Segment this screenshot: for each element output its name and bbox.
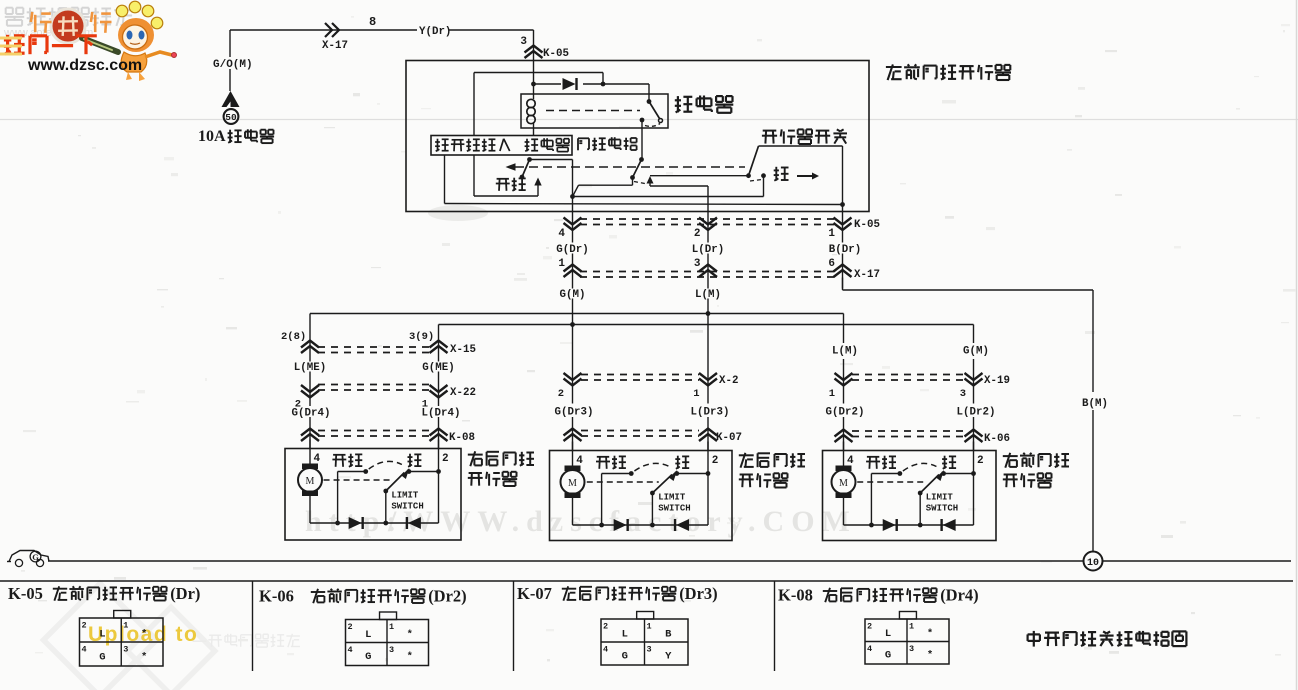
connector X-22 dashes [318, 385, 430, 391]
label G(M) branch3 [963, 346, 989, 358]
actuator K-07 (left rear) pin 4 label [576, 455, 583, 467]
label X-17 row [854, 269, 880, 281]
svg-text:K-08: K-08 [778, 586, 813, 605]
label K-08 row [449, 432, 475, 444]
svg-text:G: G [32, 552, 39, 562]
logo yellow streaks [0, 38, 22, 54]
svg-text:X-22: X-22 [450, 387, 476, 399]
X-19 pin 3 [960, 388, 966, 400]
svg-text:10: 10 [1087, 558, 1099, 569]
svg-text:3: 3 [694, 258, 701, 270]
svg-text:4: 4 [603, 645, 608, 655]
svg-text:1: 1 [123, 621, 128, 631]
svg-text:Y: Y [665, 651, 672, 663]
svg-text:M: M [306, 476, 315, 487]
svg-text:1: 1 [647, 622, 652, 632]
label L(Dr2) [957, 407, 996, 419]
svg-text:K-08: K-08 [449, 432, 475, 444]
svg-text:*: * [407, 651, 413, 663]
svg-text:SWITCH: SWITCH [658, 504, 690, 514]
svg-text:6: 6 [828, 258, 835, 270]
svg-text:G: G [622, 651, 628, 663]
svg-text:1: 1 [909, 622, 914, 632]
car ground icon [7, 551, 49, 567]
svg-text:K-06: K-06 [984, 433, 1010, 445]
actuator K-07 (left rear) wire motor to bottom [572, 498, 574, 525]
actuator K-08 (right rear) label 开锁 [332, 454, 362, 467]
svg-text:*: * [927, 650, 933, 662]
actuator K-08 (right rear) wire pin4 to motor [309, 440, 311, 464]
actuator switch lock contact [761, 173, 766, 196]
wire branch2 right (L(Dr3)) [707, 314, 709, 451]
actuator K-06 (right front) pin 4 label [847, 455, 854, 467]
svg-text:4: 4 [558, 228, 565, 240]
svg-text:1: 1 [558, 258, 565, 270]
connector X-17 chevrons [564, 265, 852, 278]
label G(Dr3) [555, 407, 594, 419]
connector K-05 row dashes [580, 219, 835, 225]
title K-07 左后门锁执行器(Dr3) [517, 584, 718, 603]
wire down to K-05 pin3 [533, 30, 535, 61]
svg-text:1: 1 [389, 622, 394, 632]
wire relay contact down [641, 120, 643, 160]
actuator K-06 (right front) label LIMIT SWITCH [926, 493, 958, 514]
wire unlock common to G(Dr) [530, 160, 573, 197]
wire branch1 left (L(ME)/G(Dr4)) [309, 314, 311, 449]
junction L(M) feeder [706, 311, 711, 316]
svg-text:www.dzsc.com: www.dzsc.com [27, 57, 142, 74]
label 右前门锁执行器 (box3) [1003, 453, 1069, 488]
connector K-06 dashes [852, 431, 965, 437]
label 开锁 (big box) [496, 178, 526, 191]
actuator K-08 (right rear) mechanical dashes [324, 479, 392, 481]
svg-text:G(Dr2): G(Dr2) [826, 407, 865, 419]
actuator K-06 (right front) wire motor to bottom [843, 498, 845, 525]
wire contactA left [573, 178, 633, 197]
label 左前门锁执行器 [886, 64, 1011, 80]
label X-2 [719, 375, 738, 387]
label pin 3 [520, 36, 527, 48]
actuator K-08 (right rear) box [285, 449, 461, 541]
label K-05 (top) [543, 48, 569, 60]
svg-text:3: 3 [389, 645, 394, 655]
svg-text:LIMIT: LIMIT [926, 493, 954, 503]
actuator switch arm [746, 146, 758, 178]
title K-06 右前门锁执行器(Dr2) [259, 587, 467, 606]
svg-text:2: 2 [558, 388, 564, 400]
svg-text:G: G [885, 650, 891, 662]
actuator K-08 (right rear) pin 2 label [442, 453, 449, 465]
wire branch1 right (G(ME)/L(Dr4)) [438, 325, 440, 449]
label 锁 (big box) [774, 167, 789, 181]
label G/O(M) [213, 59, 253, 71]
X-19 pin 1 [829, 388, 835, 400]
actuator K-07 (left rear) wire pin4 to motor [572, 442, 574, 466]
actuator K-07 (left rear) diode D1 [614, 519, 628, 531]
svg-text:B(M): B(M) [1082, 398, 1108, 410]
svg-text:K-06: K-06 [259, 587, 294, 606]
label 左后门锁执行器 (box2) [739, 453, 805, 488]
label 10A 继电器 [198, 128, 274, 145]
actuator K-06 (right front) lock contact junction [941, 471, 976, 476]
svg-text:L(Dr3): L(Dr3) [691, 407, 730, 419]
wire battery feed horizontal [230, 29, 534, 31]
svg-text:2: 2 [603, 622, 608, 632]
wire B(M) vertical [1092, 290, 1094, 552]
lock direction arrow [797, 173, 819, 180]
actuator K-07 (left rear) switch arm with arrow [650, 470, 677, 495]
actuator K-08 (right rear) unlock contact wire [338, 469, 369, 523]
svg-text:G(ME): G(ME) [422, 362, 454, 374]
actuator K-07 (left rear) label 开锁 [596, 456, 626, 469]
actuator K-07 (left rear) bottom wire [573, 523, 709, 528]
svg-text:LIMIT: LIMIT [391, 491, 419, 501]
svg-text:3: 3 [520, 36, 527, 48]
ground terminal circle 10 [1084, 552, 1103, 571]
X-22 pin 2 [295, 399, 301, 411]
actuator switch top wire [759, 145, 843, 147]
svg-text:L: L [622, 629, 628, 641]
feeder wire G net [439, 324, 974, 326]
actuator K-08 (right rear) diode D2 [407, 517, 421, 529]
watermark diamonds bottom-left [43, 583, 214, 690]
svg-text:3: 3 [909, 644, 914, 654]
connector K-05 chevrons [564, 218, 852, 231]
svg-text:3: 3 [123, 645, 128, 655]
logo mascot [116, 1, 176, 81]
actuator K-06 (right front) motor M [832, 466, 856, 499]
actuator K-07 (left rear) unlock contact wire [602, 471, 634, 525]
label 右后门锁执行器 (box1) [468, 451, 534, 486]
actuator K-07 (left rear) wire pin2 column [707, 442, 709, 526]
X-15 pin 2(8) [281, 331, 306, 343]
watermark gray text after upload [193, 634, 300, 647]
K-05 pin 1 [828, 228, 835, 240]
label X-17 (top) [322, 40, 348, 52]
svg-text:SWITCH: SWITCH [391, 502, 423, 512]
svg-text:X-2: X-2 [719, 375, 738, 387]
svg-text:3: 3 [960, 388, 966, 400]
connector pinout K-05 [80, 611, 164, 667]
label L(M) [695, 289, 721, 301]
middle switch throw dashes [634, 182, 645, 184]
dashed control line with left arrow [506, 163, 746, 171]
svg-text:G: G [365, 651, 371, 663]
actuator K-07 (left rear) mechanical dashes [587, 481, 659, 483]
svg-text:10A: 10A [198, 128, 226, 145]
wire to relay common [603, 84, 649, 101]
svg-text:3(9): 3(9) [409, 331, 434, 343]
watermark http url across actuators [305, 505, 857, 538]
svg-text:G: G [99, 652, 105, 664]
svg-text:50: 50 [225, 112, 237, 123]
ground rail [48, 560, 1291, 562]
wire contactB to L(Dr) [650, 186, 708, 212]
actuator K-06 (right front) wire pin4 to motor [843, 442, 845, 466]
actuator K-08 (right rear) motor M [298, 464, 322, 497]
svg-text:2: 2 [977, 455, 984, 467]
label K-05 row [854, 219, 880, 231]
svg-text:*: * [927, 628, 933, 640]
connector pinout K-07 [601, 612, 688, 666]
label 锁开锁输入 [435, 139, 510, 152]
table separator line [0, 580, 1293, 582]
logo magnifier and 我芯片 [31, 9, 118, 52]
watermark gray header text [3, 7, 133, 39]
connector pinout K-08 [865, 612, 949, 665]
connector K-07 chevrons [564, 429, 718, 442]
relay coil [527, 84, 535, 136]
fuse 10A symbol (triangle) [222, 91, 240, 107]
actuator K-06 (right front) box [823, 451, 997, 541]
K-05 pin 2 [694, 228, 701, 240]
svg-text:SWITCH: SWITCH [926, 504, 958, 514]
connector K-06 chevrons [835, 430, 983, 443]
wire K-05 pin3 to junction [533, 61, 535, 85]
svg-text:X-15: X-15 [450, 344, 476, 356]
unlock switch arm [520, 157, 532, 179]
svg-text:/WWW.dzscfactory.COM: /WWW.dzscfactory.COM [387, 505, 857, 538]
label 门锁电路 [578, 137, 637, 150]
actuator K-07 (left rear) diode D2 [675, 519, 689, 531]
label G(Dr) [556, 244, 588, 256]
svg-text:2: 2 [348, 622, 353, 632]
X-22 pin 1 [422, 399, 428, 411]
relay mechanical dashed link [546, 110, 640, 112]
wire branch3 right (G(M)/L(Dr2)) [973, 325, 975, 451]
title 中央门锁系统电路图 [1028, 631, 1187, 647]
X-17 pin 3 [694, 258, 701, 270]
actuator K-07 (left rear) lock contact junction [674, 471, 710, 476]
connector K-07 dashes [581, 431, 699, 437]
label pin 8 [369, 15, 376, 29]
left front door lock actuator box [406, 61, 869, 212]
title K-08 右后门锁执行器(Dr4) [778, 586, 979, 605]
svg-text:X-19: X-19 [984, 375, 1010, 387]
X-17 pin 6 [828, 258, 835, 270]
actuator switch throw dashes [750, 180, 762, 182]
svg-text:2: 2 [712, 455, 719, 467]
wire input leg to B(Dr) [445, 204, 843, 205]
actuator K-06 (right front) mechanical dashes [857, 481, 926, 483]
connector pinout K-06 [346, 612, 429, 666]
svg-text:X-17: X-17 [322, 40, 348, 52]
actuator K-08 (right rear) wire pin2 column [438, 440, 440, 524]
table divider 1 [252, 581, 254, 671]
actuator K-06 (right front) wire pin2 column [973, 442, 975, 526]
logo 维库一下 red text [4, 35, 97, 54]
svg-text:G(M): G(M) [963, 346, 989, 358]
svg-text:G(Dr3): G(Dr3) [555, 407, 594, 419]
actuator K-06 (right front) unlock contact wire [871, 471, 902, 525]
svg-text:M: M [568, 478, 577, 489]
watermark Upload to [88, 623, 198, 646]
svg-text:4: 4 [82, 645, 87, 655]
svg-text:B(Dr): B(Dr) [829, 244, 861, 256]
actuator K-06 (right front) label 锁 [942, 456, 956, 469]
svg-text:G(M): G(M) [560, 289, 586, 301]
junction G(M) feeder [570, 322, 575, 327]
label X-15 [450, 344, 476, 356]
label B(Dr) [829, 244, 861, 256]
connector K-08 chevrons [301, 429, 448, 442]
fuse circle 50 [224, 109, 239, 124]
X-17 pin 1 [558, 258, 565, 270]
wire unlock loop [474, 155, 538, 196]
svg-text:2: 2 [867, 622, 872, 632]
svg-text:LIMIT: LIMIT [658, 493, 686, 503]
wire G/O(M) vertical [229, 30, 231, 91]
middle switch common [639, 157, 644, 162]
svg-text:4: 4 [867, 644, 872, 654]
connector X-2 chevrons [564, 373, 718, 386]
svg-text:(Dr): (Dr) [170, 584, 200, 603]
connector X-15 chevrons [301, 341, 448, 354]
label L(Dr3) [691, 407, 730, 419]
logo www.dzsc.com [27, 57, 142, 74]
actuator K-06 (right front) diode D1 [883, 519, 897, 531]
label L(M) branch3 [832, 346, 858, 358]
wire input box left leg [444, 155, 446, 204]
wire relay drive loop top [474, 73, 603, 85]
actuator K-06 (right front) label 开锁 [866, 456, 896, 469]
actuator K-07 (left rear) switch throw dashed arc [634, 463, 669, 471]
connector X-2 dashes [581, 375, 699, 381]
wire loop left side [473, 73, 475, 136]
wire B(Dr) inside box [842, 146, 844, 212]
actuator K-08 (right rear) lock contact junction [406, 469, 440, 474]
svg-text:(Dr3): (Dr3) [679, 584, 717, 603]
actuator K-06 (right front) diode D2 [942, 519, 956, 531]
label G(Dr4) [292, 408, 331, 420]
svg-text:L: L [99, 629, 105, 641]
junction coil top [531, 82, 536, 87]
svg-text:*: * [407, 629, 413, 641]
svg-text:4: 4 [348, 645, 353, 655]
actuator K-08 (right rear) label LIMIT SWITCH [391, 491, 423, 512]
svg-text:G(Dr4): G(Dr4) [292, 408, 331, 420]
svg-text:L(M): L(M) [832, 346, 858, 358]
svg-text:*: * [141, 629, 147, 641]
actuator K-07 (left rear) box [550, 451, 733, 541]
connector X-19 chevrons [835, 373, 983, 386]
svg-text:L(ME): L(ME) [294, 362, 326, 374]
actuator K-08 (right rear) label 锁 [408, 454, 422, 467]
connector X-19 dashes [852, 375, 965, 381]
svg-text:L: L [365, 629, 371, 641]
junction B(Dr) node [840, 202, 845, 207]
wire B(Dr) column [842, 212, 844, 289]
actuator K-08 (right rear) limit switch wire [383, 491, 388, 525]
lock/unlock input box [431, 136, 572, 156]
svg-text:2: 2 [442, 453, 449, 465]
svg-text:L(M): L(M) [695, 289, 721, 301]
label L(Dr4) [422, 408, 461, 420]
svg-text:L(Dr4): L(Dr4) [422, 408, 461, 420]
svg-text:L(Dr2): L(Dr2) [957, 407, 996, 419]
wire middle to actuator switch [650, 175, 749, 177]
label 继电器 (relay) [675, 96, 734, 113]
label X-22 [450, 387, 476, 399]
actuator K-08 (right rear) pin 4 label [314, 453, 321, 465]
svg-text:K-05: K-05 [8, 584, 43, 603]
wire G(Dr) exit [572, 197, 574, 213]
svg-text:L(Dr): L(Dr) [692, 244, 724, 256]
middle switch arrow contact [647, 176, 654, 186]
connector K-08 dashes [318, 431, 430, 437]
actuator K-08 (right rear) switch throw dashed arc [369, 461, 402, 469]
svg-text:K-07: K-07 [716, 432, 742, 444]
title K-05 左前门锁执行器(Dr) [8, 584, 200, 603]
relay U1 box [521, 94, 668, 128]
wire branch3 left (L(M)/G(Dr2)) [843, 314, 845, 451]
actuator K-07 (left rear) label LIMIT SWITCH [658, 493, 690, 514]
X-2 pin 2 [558, 388, 564, 400]
svg-text:K-05: K-05 [854, 219, 880, 231]
actuator K-06 (right front) bottom wire [844, 523, 974, 528]
wire G(Dr) column [572, 212, 574, 325]
svg-text:K-07: K-07 [517, 584, 552, 603]
label K-07 row [716, 432, 742, 444]
wire branch2 left (G(Dr3)) [572, 325, 574, 451]
label K-06 row [984, 433, 1010, 445]
actuator K-06 (right front) switch throw dashed arc [903, 463, 937, 471]
table divider 3 [774, 581, 776, 671]
actuator K-06 (right front) limit switch wire [918, 493, 923, 527]
label B(M) [1082, 398, 1108, 410]
svg-text:3: 3 [647, 645, 652, 655]
wire diode row [534, 83, 604, 85]
unlock fixed contact arrow [534, 178, 541, 197]
svg-text:4: 4 [576, 455, 583, 467]
svg-text:1: 1 [693, 388, 699, 400]
wire L(Dr) column [707, 212, 709, 314]
actuator K-07 (left rear) limit switch wire [650, 493, 655, 527]
svg-text:1: 1 [829, 388, 835, 400]
actuator K-07 (left rear) motor M [561, 466, 585, 499]
actuator K-07 (left rear) label 锁 [675, 456, 689, 469]
svg-text:K-05: K-05 [543, 48, 569, 60]
svg-text:L: L [885, 628, 891, 640]
label X-19 [984, 375, 1010, 387]
table divider 2 [513, 581, 515, 671]
actuator K-06 (right front) switch arm with arrow [918, 470, 944, 495]
svg-text:G/O(M): G/O(M) [213, 59, 253, 71]
svg-text:(Dr4): (Dr4) [940, 586, 978, 605]
actuator K-08 (right rear) switch arm with arrow [383, 468, 409, 493]
diode D1 (relay suppression) [563, 78, 577, 90]
svg-text:X-17: X-17 [854, 269, 880, 281]
middle switch arm [630, 160, 641, 180]
wire B(M) to right [843, 278, 1094, 291]
connector K-05 pin3 chevrons [525, 46, 543, 59]
connector X-15 dashes [318, 347, 430, 353]
svg-text:2: 2 [82, 621, 87, 631]
junction G(Dr) node [570, 194, 575, 199]
svg-text:8: 8 [369, 15, 376, 29]
svg-text:4: 4 [847, 455, 854, 467]
svg-text:4: 4 [314, 453, 321, 465]
label G(M) [560, 289, 586, 301]
svg-text:1: 1 [828, 228, 835, 240]
actuator K-08 (right rear) wire motor to bottom [309, 496, 311, 523]
connector X-17 pin8 chevrons [325, 23, 339, 37]
label G(ME) [422, 362, 454, 374]
actuator K-07 (left rear) pin 2 label [712, 455, 719, 467]
svg-text:G(Dr): G(Dr) [556, 244, 588, 256]
label L(Dr) [692, 244, 724, 256]
svg-text:*: * [141, 652, 147, 664]
